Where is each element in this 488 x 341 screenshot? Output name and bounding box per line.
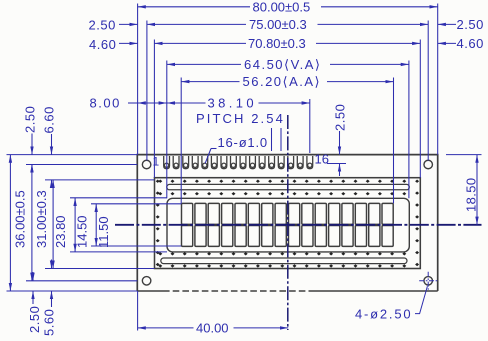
dim 11.50 vertical bbox=[95, 204, 97, 246]
LCD metal bezel outer frame bbox=[155, 178, 421, 269]
svg-text:31.00±0.3: 31.00±0.3 bbox=[34, 190, 49, 248]
svg-text:18.50: 18.50 bbox=[464, 177, 479, 212]
mounting hole bottom-left bbox=[142, 277, 151, 286]
svg-text:56.20⟨A.A⟩: 56.20⟨A.A⟩ bbox=[243, 74, 322, 89]
dim 36.00 vertical bbox=[9, 155, 11, 291]
svg-text:1: 1 bbox=[153, 155, 160, 169]
vertical center line bbox=[287, 115, 289, 330]
dim 2.50 pin row vertical bbox=[339, 131, 341, 155]
dim 64.50 V.A bbox=[167, 63, 241, 65]
dim 80.00 bbox=[138, 6, 250, 8]
16x2 character cells bbox=[182, 203, 394, 246]
svg-text:38.10: 38.10 bbox=[208, 96, 258, 111]
svg-text:4.60: 4.60 bbox=[457, 36, 484, 51]
horizontal center line bbox=[115, 224, 482, 226]
leader for 16-Ø1.0 bbox=[211, 148, 217, 150]
svg-text:40.00: 40.00 bbox=[196, 320, 229, 335]
mounting hole bottom-right with center marks bbox=[424, 277, 433, 286]
pitch tick lines bbox=[271, 128, 273, 151]
svg-text:4-ø2.50: 4-ø2.50 bbox=[355, 306, 412, 321]
dim 14.50 vertical bbox=[74, 198, 76, 252]
svg-text:2.50: 2.50 bbox=[333, 104, 348, 131]
dim 5.60 bottom-left vertical bbox=[51, 260, 53, 269]
svg-text:11.50: 11.50 bbox=[96, 216, 111, 248]
small gap arrows top-right 2.50 bbox=[438, 23, 456, 25]
svg-text:80.00±0.5: 80.00±0.5 bbox=[253, 0, 311, 14]
dim 56.20 A.A bbox=[181, 81, 239, 83]
dim 75.00 bbox=[147, 23, 246, 25]
dim 18.50 vertical bbox=[476, 155, 478, 225]
svg-text:2.50: 2.50 bbox=[23, 106, 38, 133]
svg-text:4.60: 4.60 bbox=[89, 37, 116, 52]
dim 31.00 vertical bbox=[31, 165, 33, 281]
svg-text:6.60: 6.60 bbox=[42, 106, 57, 133]
dim 23.80 vertical bbox=[52, 180, 54, 269]
dim 2.50 top-left vertical bbox=[31, 134, 33, 155]
dim 6.60 top-left vertical bbox=[51, 134, 53, 155]
small gap arrows top-left 4.60 bbox=[119, 42, 138, 44]
board bottom edge (partly dashed) bbox=[137, 290, 163, 292]
svg-text:16: 16 bbox=[315, 151, 329, 166]
svg-text:5.60: 5.60 bbox=[42, 309, 57, 336]
extension lines top bbox=[137, 4, 139, 155]
svg-text:14.50: 14.50 bbox=[75, 215, 90, 248]
viewing area window bbox=[167, 198, 409, 252]
dim 70.80 bbox=[154, 42, 246, 44]
svg-text:36.00±0.5: 36.00±0.5 bbox=[13, 190, 28, 248]
small gap arrows top-left 2.50 bbox=[119, 23, 138, 25]
extension lines left bbox=[7, 154, 138, 156]
svg-text:16-ø1.0: 16-ø1.0 bbox=[218, 135, 268, 150]
dim 40.00 bbox=[138, 327, 194, 329]
dim 8.00 leader bbox=[128, 102, 138, 104]
svg-text:23.80: 23.80 bbox=[53, 215, 68, 248]
svg-text:2.50: 2.50 bbox=[89, 18, 116, 33]
small gap arrows top-right 4.60 bbox=[438, 42, 456, 44]
bezel bottom slot bbox=[161, 258, 407, 264]
mounting hole top-right bbox=[424, 160, 433, 169]
dim 38.10 bbox=[167, 102, 206, 104]
16 pin pads bbox=[164, 156, 313, 169]
svg-text:64.50⟨V.A⟩: 64.50⟨V.A⟩ bbox=[244, 57, 321, 72]
leader line to bottom-right hole bbox=[415, 286, 427, 313]
PCB board outline bbox=[137, 155, 437, 291]
dim 8.00 bbox=[138, 102, 167, 104]
svg-text:PITCH 2.54: PITCH 2.54 bbox=[196, 111, 285, 126]
svg-text:75.00±0.3: 75.00±0.3 bbox=[249, 17, 307, 32]
svg-text:2.50: 2.50 bbox=[27, 306, 42, 333]
mounting hole top-left bbox=[142, 160, 151, 169]
svg-text:2.50: 2.50 bbox=[457, 17, 484, 32]
bezel hatch marks bbox=[156, 180, 419, 268]
bezel top slot bbox=[167, 184, 409, 189]
svg-text:70.80±0.3: 70.80±0.3 bbox=[248, 36, 306, 51]
dim 2.50 bottom-left vertical bbox=[32, 272, 34, 281]
svg-text:8.00: 8.00 bbox=[90, 96, 121, 111]
extension lines right & bottom bbox=[446, 154, 482, 156]
